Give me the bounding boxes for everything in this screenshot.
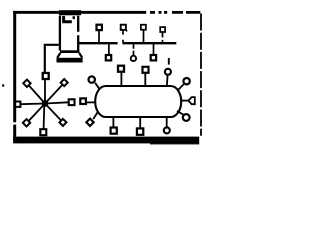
star wire hub to NW [29, 86, 45, 104]
terminal T2 corner tail [126, 30, 128, 32]
stadium stem SE [177, 111, 183, 115]
stem below bus 1 [108, 44, 110, 55]
stadium terminal square bottom 2 [137, 128, 143, 134]
tube left wall [59, 16, 61, 51]
stem above bus 2 dashed [122, 30, 124, 43]
stadium stem bottom 1 [112, 118, 114, 128]
wire bus from tube right wall [79, 42, 176, 44]
stem above bus 3 [143, 30, 145, 43]
stadium terminal square W [80, 98, 86, 104]
stadium stem bottom 3 [166, 118, 168, 128]
stem above bus 1 [98, 30, 100, 42]
stadium stem bottom 2 [139, 118, 141, 129]
stem below bus 3 [153, 44, 155, 55]
wire from tube left wall to star [45, 45, 59, 73]
stadium terminal pennant E [188, 97, 194, 104]
star terminal square E [69, 99, 75, 105]
stem below bus 2 dashed [133, 44, 135, 56]
stadium terminal square top 2 [143, 67, 149, 73]
star terminal diamond SW [23, 119, 30, 126]
border frame left side break [13, 122, 17, 124]
star wire hub to N [44, 79, 46, 103]
dangling dash below bus [168, 58, 170, 65]
stray speck [2, 84, 4, 86]
stadium terminal square top 1 [118, 66, 124, 72]
star terminal square S [40, 129, 46, 135]
stem above bus 4 dashed [162, 32, 164, 42]
terminal square T4 [160, 27, 165, 32]
stadium stem top 2 [144, 73, 146, 85]
tube right wall [77, 16, 79, 51]
terminal square B1 [106, 55, 111, 60]
stadium terminal circle NE [183, 78, 189, 84]
border frame bottom bar [13, 137, 199, 144]
star wire hub to SW [29, 104, 45, 122]
stadium stem NE [178, 84, 183, 90]
stadium terminal circle SE [183, 114, 190, 121]
stadium terminal circle NW [89, 76, 95, 82]
star wire hub to NE [45, 85, 62, 104]
stadium terminal square bottom 1 [111, 128, 117, 134]
star terminal diamond NW [23, 80, 30, 87]
star hub [42, 100, 49, 107]
border frame top side [13, 11, 146, 14]
star wire hub to SE [45, 104, 61, 121]
stadium stem top 1 [120, 72, 122, 85]
tube base bar [57, 58, 83, 63]
tube base flare right [79, 53, 82, 58]
terminal square T3 [141, 25, 146, 30]
terminal circle B2 [131, 56, 136, 61]
stadium terminal circle bottom 3 [164, 127, 170, 133]
stadium stem SW [93, 113, 97, 120]
stadium stem top 3 [166, 75, 169, 85]
stadium stem W [86, 101, 95, 103]
border frame bottom bar right thickening [150, 143, 199, 144]
terminal square T1 [97, 25, 102, 30]
tube bottom rim [60, 50, 80, 53]
stadium terminal diamond SW [86, 119, 93, 126]
tube cap [59, 10, 81, 15]
tube inner tick [73, 16, 75, 19]
star wire hub to E [45, 102, 68, 103]
star terminal square N [43, 73, 49, 79]
tube base flare left [57, 53, 60, 58]
star terminal diamond SE [59, 119, 66, 126]
star wire hub to S [43, 104, 46, 129]
terminal square B3 [151, 55, 156, 60]
border frame left side [13, 11, 16, 143]
border frame top side dashed part [150, 11, 200, 14]
stadium stem E [181, 100, 188, 102]
star terminal diamond NE [61, 79, 68, 86]
border frame right side dashed [200, 14, 202, 136]
star terminal square W [15, 102, 20, 107]
stadium body [95, 86, 181, 117]
stadium stem NW [95, 83, 100, 90]
terminal square T2 [121, 25, 126, 30]
stadium terminal circle top 3 [165, 69, 171, 75]
star wire hub to W [21, 103, 45, 106]
tube inner L mark [62, 16, 72, 22]
